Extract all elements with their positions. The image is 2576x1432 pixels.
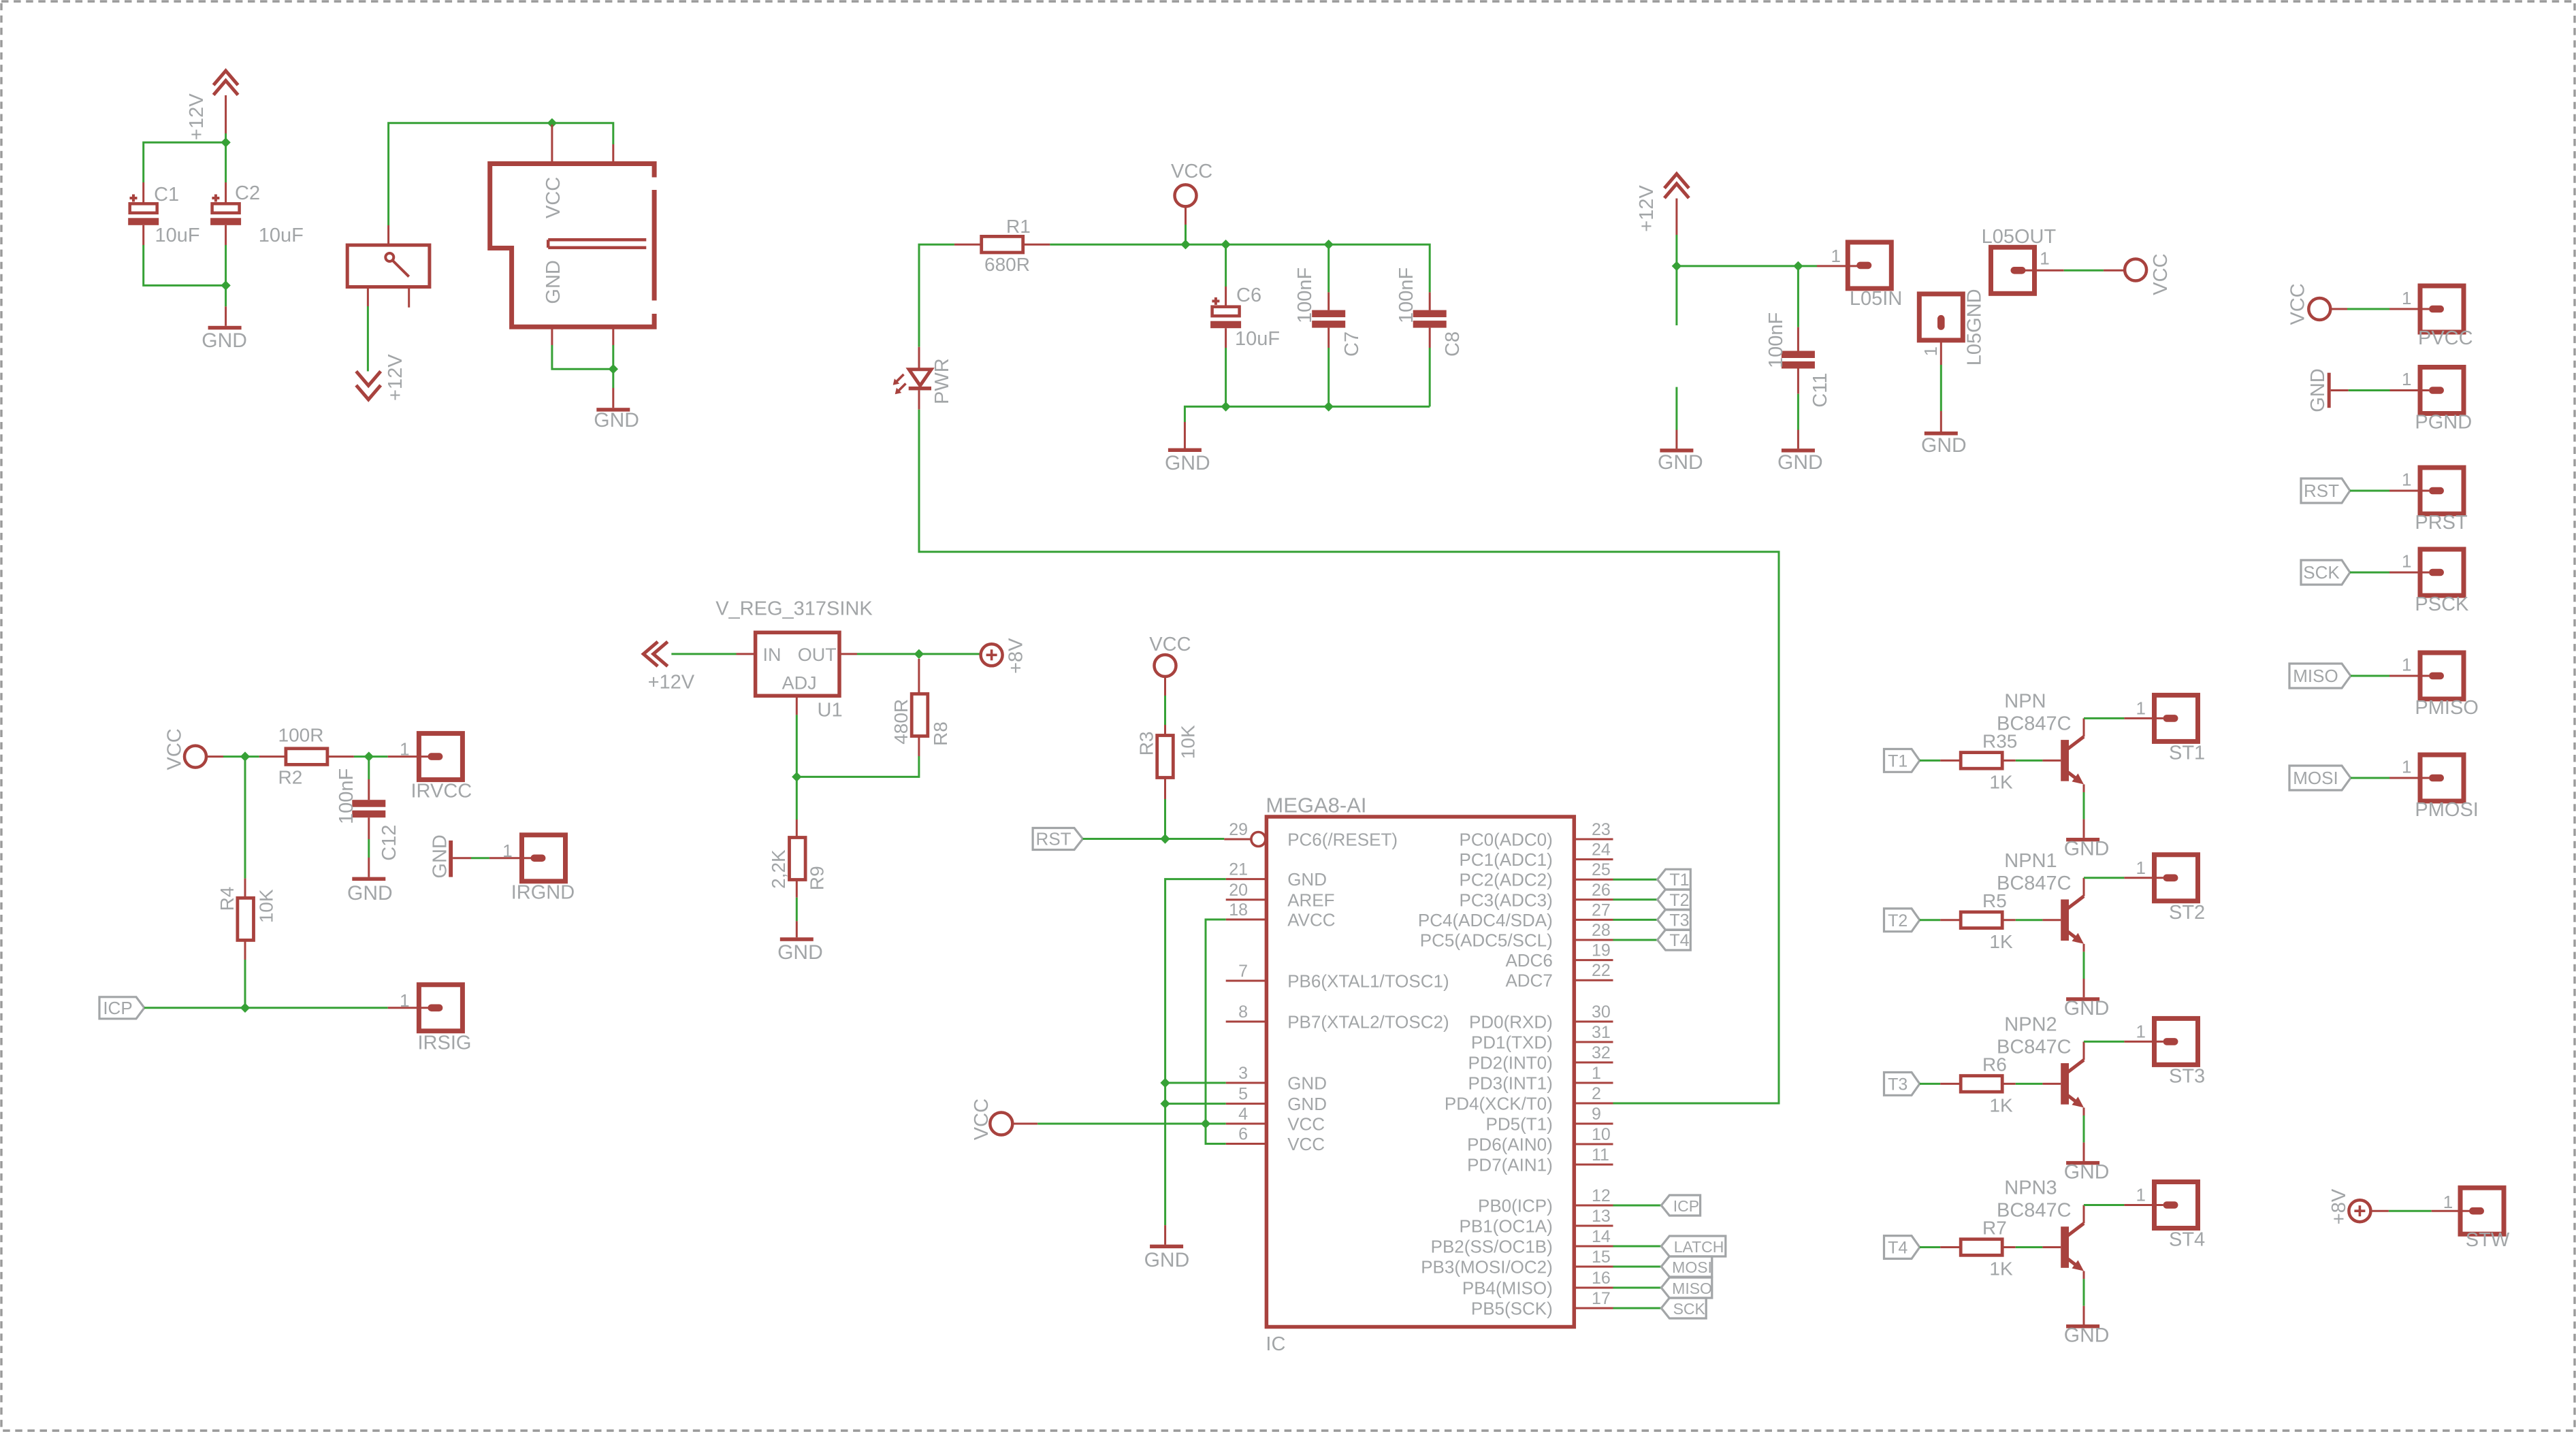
IC right pin names — [1418, 830, 1553, 1319]
svg-text:MEGA8-AI: MEGA8-AI — [1266, 793, 1366, 817]
svg-text:GND: GND — [1777, 451, 1823, 474]
pin number 1 ST4 — [2136, 1185, 2146, 1205]
led PWR light arrows — [893, 374, 906, 394]
wire emitter to ground — [2083, 1279, 2085, 1324]
svg-text:IRGND: IRGND — [511, 882, 575, 904]
wire switch to connector top — [389, 123, 613, 225]
pin gnd rail — [1184, 422, 1186, 449]
svg-text:5: 5 — [1238, 1085, 1248, 1104]
node junction GND pin3 — [1160, 1078, 1170, 1088]
wire VCC to junction R2 — [206, 755, 259, 758]
svg-text:IN: IN — [763, 645, 782, 665]
svg-text:VCC: VCC — [543, 177, 564, 218]
svg-text:1: 1 — [2402, 757, 2411, 777]
wire VCC symbol to rail — [1185, 225, 1187, 244]
svg-text:1K: 1K — [1989, 931, 2013, 952]
wire R1 left to LED corner — [919, 244, 954, 347]
svg-text:BC847C: BC847C — [1997, 1036, 2072, 1058]
supply symbol VCC (R3) — [1155, 655, 1176, 677]
svg-text:12: 12 — [1592, 1186, 1611, 1205]
pad PGND — [2420, 368, 2464, 414]
svg-text:16: 16 — [1592, 1269, 1611, 1288]
wire +12V to U1 IN — [671, 653, 755, 655]
wire R9 to ground — [796, 880, 798, 938]
wire L05OUT to VCC — [2025, 270, 2125, 272]
svg-text:VCC: VCC — [971, 1099, 993, 1140]
pin C8 top — [1429, 292, 1431, 310]
wire C2 bottom to junction — [225, 225, 227, 286]
svg-text:MOSI: MOSI — [1672, 1258, 1712, 1276]
wire C8 bottom — [1429, 328, 1431, 407]
wire +12V arrow to junction — [225, 95, 227, 142]
label STW — [2466, 1229, 2510, 1251]
voltage regulator U1 V_REG_317SINK box — [756, 632, 839, 696]
svg-text:VCC: VCC — [2150, 253, 2172, 295]
label +12V U1 — [648, 672, 695, 694]
wire C6 drop — [1225, 244, 1227, 307]
svg-text:C6: C6 — [1236, 284, 1261, 306]
svg-text:R1: R1 — [1006, 216, 1031, 237]
node junction GND pin5 — [1160, 1099, 1170, 1108]
label GND L05IN — [1658, 451, 1703, 474]
svg-text:+12V: +12V — [648, 672, 695, 694]
svg-text:PVCC: PVCC — [2418, 327, 2473, 349]
svg-text:+8V: +8V — [1005, 638, 1027, 674]
label R2 value 100R — [278, 725, 324, 746]
label GND C11 — [1777, 451, 1823, 474]
ground symbol C11 — [1782, 449, 1815, 453]
svg-text:20: 20 — [1229, 881, 1248, 900]
wire T3 to R6 — [1920, 1083, 1961, 1085]
wire +12V to junction — [1675, 199, 1677, 266]
wire OUT to +8V — [857, 653, 981, 655]
pad ST3 — [2155, 1018, 2198, 1064]
wire gnd rail C6C7C8 — [1185, 406, 1430, 422]
label GND inside connector — [543, 260, 564, 304]
flag T1 (input, right) — [1884, 749, 1920, 772]
label R7 — [1982, 1218, 2007, 1239]
label R1 — [1006, 216, 1031, 237]
svg-text:1: 1 — [502, 841, 512, 861]
wire GND to IRGND — [453, 857, 532, 859]
svg-text:1: 1 — [2443, 1192, 2453, 1212]
flag T3 (input, right) — [1884, 1073, 1920, 1096]
pin U1 ADJ — [796, 696, 798, 715]
wire VCC to PVCC — [2330, 308, 2429, 310]
label R6 — [1982, 1054, 2007, 1075]
label C2 value 10uF — [259, 225, 304, 246]
label V_REG_317SINK — [715, 598, 873, 619]
svg-text:VCC: VCC — [163, 728, 185, 770]
flag ICP (left) — [1661, 1195, 1700, 1216]
wire ICP to IRSIG — [144, 1007, 428, 1009]
label GND PGND — [2307, 368, 2329, 412]
pin U1 OUT — [839, 653, 857, 655]
svg-text:6: 6 — [1238, 1125, 1248, 1144]
svg-text:18: 18 — [1229, 900, 1248, 920]
svg-text:100R: 100R — [278, 725, 324, 746]
label C7 — [1341, 331, 1363, 357]
svg-text:30: 30 — [1592, 1003, 1611, 1022]
wire junction to C2 top — [225, 142, 227, 204]
svg-text:PC1(ADC1): PC1(ADC1) — [1460, 849, 1553, 870]
svg-text:R9: R9 — [806, 866, 827, 890]
wire C6 bottom — [1225, 328, 1227, 406]
pin number 1 IRGND — [502, 841, 512, 861]
label VCC IR — [163, 728, 185, 770]
wire RST flag to junction — [1083, 838, 1165, 840]
label C1 — [154, 184, 179, 206]
svg-text:GND: GND — [2064, 837, 2110, 860]
label OUT — [798, 645, 837, 665]
pin number 1 L05IN — [1831, 246, 1841, 266]
svg-text:ICP: ICP — [103, 998, 132, 1018]
pin R1 right — [1023, 244, 1050, 246]
svg-text:1: 1 — [1920, 346, 1941, 356]
label VCC PVCC — [2287, 283, 2308, 325]
wire SCK to PSCK — [2350, 572, 2429, 574]
pin number 1 PVCC — [2402, 288, 2411, 308]
IC left pin stubs and numbers — [1226, 820, 1267, 1144]
label GND IRGND — [429, 834, 451, 878]
supply symbol +12V left arrow (U1) — [643, 642, 668, 666]
pin connector GND right — [612, 327, 614, 345]
svg-text:7: 7 — [1238, 962, 1248, 981]
label C12 — [379, 825, 400, 861]
svg-text:GND: GND — [594, 409, 639, 432]
wire pin12 to ICP flag — [1613, 1205, 1662, 1207]
wire junction down to R8 — [796, 659, 919, 777]
wire GND to PGND — [2331, 389, 2429, 391]
svg-text:32: 32 — [1592, 1043, 1611, 1062]
flag SCK (right) — [2301, 560, 2350, 585]
wire R2 to junction C12 — [354, 755, 369, 758]
svg-text:AREF: AREF — [1287, 890, 1334, 910]
svg-text:PB7(XTAL2/TOSC2): PB7(XTAL2/TOSC2) — [1287, 1012, 1449, 1032]
pin 29 inversion circle — [1251, 832, 1266, 847]
wire junction to ground — [225, 285, 227, 325]
wire C7 bottom — [1327, 328, 1330, 407]
label ADJ — [782, 673, 817, 694]
supply symbol +12V down (switch) — [356, 372, 381, 400]
label GND rail — [1165, 452, 1210, 474]
resistor R8 — [912, 694, 928, 736]
flag MISO (left) — [1661, 1278, 1712, 1298]
wire GND pin3 branch — [1165, 1082, 1226, 1084]
label ST2 — [2169, 902, 2205, 924]
svg-text:GND: GND — [429, 834, 451, 878]
svg-text:10: 10 — [1592, 1125, 1611, 1144]
pin number 1 ST3 — [2136, 1021, 2146, 1041]
flag RST (right) — [2301, 478, 2350, 503]
wire GND pin5 branch — [1165, 1103, 1226, 1105]
pin switch bottom left — [367, 287, 369, 307]
pad IRSIG — [419, 985, 462, 1031]
svg-text:1: 1 — [2402, 288, 2411, 308]
label L05IN — [1850, 288, 1902, 310]
wire connector grounds join — [552, 345, 613, 369]
svg-text:100nF: 100nF — [1765, 312, 1787, 368]
pin R2 right — [327, 755, 354, 758]
wire junction to IRVCC — [369, 755, 429, 758]
svg-text:RST: RST — [1036, 829, 1072, 849]
svg-text:GND: GND — [1287, 869, 1327, 890]
label C8 value 100nF — [1396, 267, 1417, 323]
svg-text:VCC: VCC — [1287, 1134, 1325, 1154]
svg-text:ST4: ST4 — [2169, 1229, 2205, 1251]
svg-text:PSCK: PSCK — [2415, 593, 2469, 615]
label C7 value 100nF — [1294, 267, 1316, 323]
svg-text:ADJ: ADJ — [782, 673, 817, 694]
svg-text:T3: T3 — [1888, 1075, 1907, 1094]
svg-text:13: 13 — [1592, 1207, 1611, 1226]
svg-text:PWR: PWR — [931, 358, 953, 404]
label R9 value 2,2K — [768, 849, 789, 889]
wire C11 bottom — [1797, 369, 1799, 449]
label R8 value 480R — [890, 699, 912, 745]
svg-text:26: 26 — [1592, 881, 1611, 900]
svg-text:R2: R2 — [278, 766, 303, 787]
label GND R9 — [777, 941, 823, 964]
label VCC L05OUT — [2150, 253, 2172, 295]
node junction RST — [1160, 834, 1170, 843]
svg-text:PC2(ADC2): PC2(ADC2) — [1460, 870, 1553, 890]
svg-text:1K: 1K — [1989, 1094, 2013, 1116]
flag RST (right, near IC) — [1033, 828, 1082, 850]
svg-text:GND: GND — [1658, 451, 1703, 474]
label R2 — [278, 766, 303, 787]
pad ST4 — [2155, 1182, 2198, 1228]
svg-text:PB1(OC1A): PB1(OC1A) — [1460, 1216, 1553, 1237]
svg-text:680R: 680R — [984, 254, 1030, 275]
wire pin14 to LATCH flag — [1613, 1246, 1662, 1248]
label MEGA8-AI — [1266, 793, 1366, 817]
resistor R9 — [790, 838, 806, 880]
pin +8V circle — [980, 654, 982, 656]
svg-text:24: 24 — [1592, 841, 1611, 860]
switch S1 body — [347, 245, 430, 287]
transistor NPN BC847C — [2061, 718, 2084, 792]
supply symbol VCC (L05OUT) — [2125, 259, 2146, 281]
svg-text:PB5(SCK): PB5(SCK) — [1471, 1299, 1553, 1319]
label NPN3 value BC847C — [1997, 1200, 2072, 1222]
svg-text:C8: C8 — [1442, 331, 1464, 357]
svg-text:R3: R3 — [1136, 732, 1157, 756]
label R35 value 1K — [1989, 771, 2013, 792]
capacitor C8 — [1413, 310, 1447, 328]
label C1 value 10uF — [155, 225, 200, 246]
svg-text:AVCC: AVCC — [1287, 910, 1335, 930]
wire T2 to R5 — [1920, 919, 1961, 921]
pad ST1 — [2155, 695, 2198, 741]
svg-text:1: 1 — [2136, 858, 2146, 878]
wire R7 to base — [2002, 1246, 2061, 1248]
supply symbol +12V (L05) — [1664, 174, 1689, 199]
node junction top C1C2 — [221, 137, 230, 147]
wire C12 top — [368, 757, 370, 800]
svg-text:31: 31 — [1592, 1023, 1611, 1042]
node junction C11 top — [1793, 261, 1803, 271]
svg-text:PRST: PRST — [2415, 512, 2468, 534]
label +8V STW — [2328, 1188, 2350, 1224]
svg-text:R8: R8 — [930, 721, 951, 746]
svg-text:PD5(T1): PD5(T1) — [1486, 1114, 1553, 1135]
pad L05IN — [1848, 242, 1891, 289]
wire junction R2 down to R4 — [244, 757, 246, 899]
svg-text:1: 1 — [2402, 470, 2411, 490]
svg-text:PGND: PGND — [2415, 412, 2472, 434]
capacitor C6 — [1210, 297, 1241, 328]
svg-text:GND: GND — [347, 882, 393, 905]
label PGND — [2415, 412, 2472, 434]
svg-text:PD6(AIN0): PD6(AIN0) — [1467, 1135, 1553, 1155]
wire MOSI to PMOSI — [2351, 777, 2429, 779]
pin switch top — [387, 225, 389, 245]
svg-text:+12V: +12V — [186, 93, 208, 140]
svg-text:10uF: 10uF — [1235, 328, 1280, 350]
svg-text:RST: RST — [2304, 481, 2339, 501]
label R4 value 10K — [256, 889, 277, 923]
wire pin15 to MOSI flag — [1613, 1266, 1662, 1268]
svg-text:PC6(/RESET): PC6(/RESET) — [1287, 830, 1398, 850]
pad PRST — [2420, 468, 2464, 514]
svg-text:MOSI: MOSI — [2293, 768, 2338, 788]
svg-text:4: 4 — [1238, 1105, 1248, 1124]
svg-text:T1: T1 — [1669, 870, 1689, 890]
svg-text:15: 15 — [1592, 1248, 1611, 1267]
label NPN1 — [2004, 850, 2057, 872]
capacitor C2 — [210, 195, 241, 225]
IC MEGA8-AI box — [1266, 817, 1574, 1327]
wire collector to ST3 — [2084, 1041, 2163, 1043]
label VCC rail — [1171, 161, 1212, 182]
label VCC inside connector — [543, 177, 564, 218]
svg-text:C12: C12 — [379, 825, 400, 861]
pin VCC symbol — [1185, 207, 1187, 225]
pin number 1 PRST — [2402, 470, 2411, 490]
label C11 value 100nF — [1765, 312, 1787, 368]
svg-text:100nF: 100nF — [1396, 267, 1417, 323]
wire emitter to ground — [2083, 1116, 2085, 1161]
wire collector to ST2 — [2084, 877, 2163, 879]
svg-text:1: 1 — [2136, 698, 2146, 718]
pin number 1 PMISO — [2402, 655, 2411, 675]
svg-text:VCC: VCC — [1171, 161, 1212, 182]
svg-text:11: 11 — [1592, 1145, 1609, 1165]
resistor R5 — [1961, 912, 2002, 928]
svg-text:PD0(RXD): PD0(RXD) — [1469, 1012, 1553, 1032]
wire C12 bottom — [368, 817, 370, 877]
svg-text:8: 8 — [1238, 1003, 1248, 1022]
wire gnd stub below (L05IN) — [1675, 387, 1677, 449]
svg-text:PD3(INT1): PD3(INT1) — [1468, 1073, 1553, 1094]
label C11 — [1809, 373, 1831, 408]
pad ST2 — [2155, 855, 2198, 901]
pad STW — [2460, 1188, 2504, 1234]
label IN — [763, 645, 782, 665]
flag LATCH (left) — [1661, 1236, 1726, 1256]
svg-text:27: 27 — [1592, 900, 1611, 920]
label C8 — [1442, 331, 1464, 357]
node junction AVCC — [1201, 1119, 1210, 1128]
wire VCC rail — [1050, 244, 1430, 292]
svg-text:BC847C: BC847C — [1997, 1200, 2072, 1222]
label VCC IC — [971, 1099, 993, 1140]
svg-text:GND: GND — [2064, 1324, 2110, 1347]
label C12 value 100nF — [336, 768, 357, 824]
label R3 value 10K — [1178, 725, 1199, 759]
pad PVCC — [2420, 286, 2464, 332]
svg-text:14: 14 — [1592, 1227, 1611, 1246]
svg-text:1: 1 — [2402, 551, 2411, 572]
svg-text:GND: GND — [1287, 1094, 1327, 1114]
node junction gnd rail C7 — [1324, 402, 1334, 411]
pad L05GND — [1919, 294, 1963, 340]
wire C7 drop — [1327, 244, 1330, 310]
wire L05GND to ground — [1940, 339, 1942, 432]
svg-text:23: 23 — [1592, 820, 1611, 839]
svg-text:PD4(XCK/T0): PD4(XCK/T0) — [1445, 1094, 1553, 1114]
svg-text:NPN: NPN — [2004, 690, 2046, 712]
flag MISO (right) — [2289, 664, 2351, 688]
label ST3 — [2169, 1065, 2205, 1087]
svg-text:L05OUT: L05OUT — [1982, 226, 2057, 248]
svg-text:ST3: ST3 — [2169, 1065, 2205, 1087]
label +8V U1 — [1005, 638, 1027, 674]
wire LED cathode down/right to pin2 net — [919, 410, 1779, 1103]
wire R6 to base — [2002, 1083, 2061, 1085]
svg-text:GND: GND — [2064, 1160, 2110, 1183]
svg-text:+8V: +8V — [2328, 1188, 2350, 1224]
svg-text:9: 9 — [1592, 1105, 1601, 1124]
svg-text:NPN3: NPN3 — [2004, 1177, 2057, 1199]
node junction R8 top — [914, 649, 924, 659]
wire R35 to base — [2002, 760, 2061, 762]
supply symbol +8V (STW) — [2349, 1200, 2370, 1222]
node junction connector gnd — [609, 364, 618, 374]
svg-text:PB3(MOSI/OC2): PB3(MOSI/OC2) — [1421, 1257, 1553, 1278]
wire R3 to junction — [1164, 778, 1166, 839]
wire junction to C1 top — [144, 142, 226, 204]
wire junction to C11 junction — [1677, 265, 1799, 267]
node junction R2 left — [240, 751, 250, 761]
label GND NPN2 — [2064, 1160, 2110, 1183]
label PVCC — [2418, 327, 2473, 349]
label PSCK — [2415, 593, 2469, 615]
wire pin16 to MISO flag — [1613, 1287, 1662, 1289]
svg-text:L05GND: L05GND — [1963, 289, 1985, 365]
svg-text:+12V: +12V — [385, 354, 406, 401]
resistor R3 — [1157, 736, 1174, 778]
label L05GND — [1963, 289, 1985, 365]
label +12V at switch — [385, 354, 406, 401]
svg-text:C1: C1 — [154, 184, 179, 206]
svg-text:1: 1 — [400, 739, 409, 760]
wire C1 bottom to junction — [144, 225, 226, 286]
svg-text:PD1(TXD): PD1(TXD) — [1471, 1032, 1553, 1053]
svg-text:ICP: ICP — [1673, 1197, 1699, 1215]
svg-text:C2: C2 — [235, 182, 260, 204]
wire emitter to ground — [2083, 951, 2085, 997]
svg-text:PC5(ADC5/SCL): PC5(ADC5/SCL) — [1420, 930, 1553, 951]
svg-text:GND: GND — [202, 329, 247, 352]
supply symbol VCC (rail) — [1175, 184, 1197, 206]
svg-text:ST1: ST1 — [2169, 742, 2205, 764]
svg-text:IRVCC: IRVCC — [411, 780, 472, 802]
svg-text:1: 1 — [2040, 248, 2049, 268]
ground symbol NPN1 — [2066, 997, 2099, 1001]
label ST1 — [2169, 742, 2205, 764]
